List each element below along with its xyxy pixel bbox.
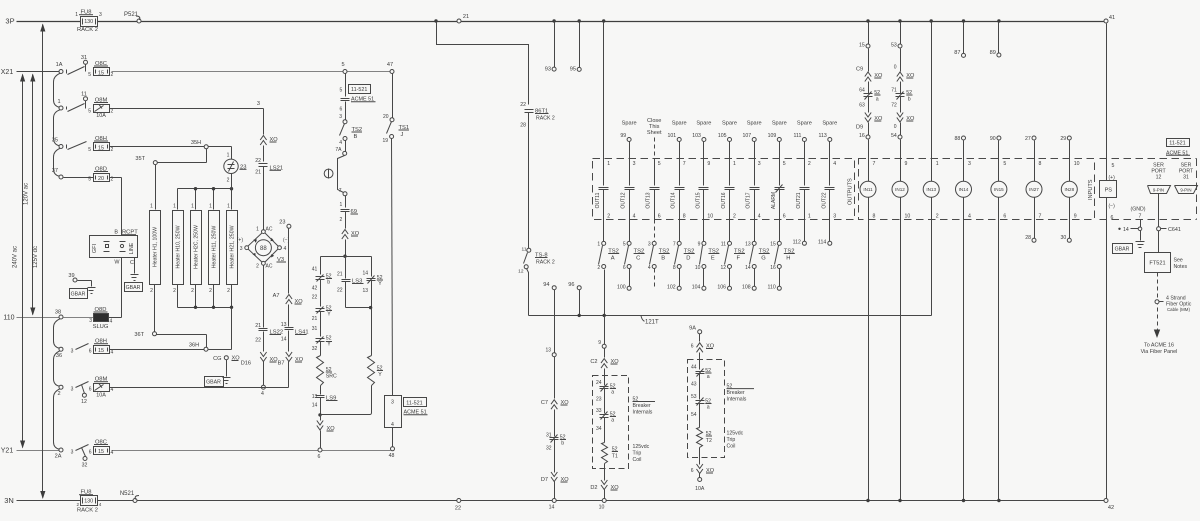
svg-text:54: 54 bbox=[691, 412, 697, 418]
fuse O8H row 36 bbox=[89, 339, 114, 356]
switch row 2A with contact 32 bbox=[71, 445, 89, 469]
svg-text:2: 2 bbox=[111, 109, 114, 115]
svg-text:7: 7 bbox=[1039, 214, 1042, 220]
capacitor 69 bbox=[340, 196, 358, 229]
switch TS2 B (OUT13) bbox=[648, 220, 670, 289]
node 14 on 3N bbox=[549, 499, 557, 511]
svg-text:Via Fiber Panel: Via Fiber Panel bbox=[1141, 349, 1178, 355]
switch row 2 with contact 12 bbox=[71, 382, 89, 406]
svg-text:OUT21: OUT21 bbox=[796, 192, 802, 208]
svg-text:110: 110 bbox=[768, 285, 776, 291]
contact 52/b (41-42) bbox=[312, 267, 332, 307]
svg-text:87: 87 bbox=[954, 50, 960, 56]
arrow XO up C7 bbox=[541, 400, 569, 437]
output contact OUT14 bbox=[671, 161, 686, 220]
voltage line 120V ac (X21 to 110) bbox=[23, 74, 35, 316]
svg-text:11-521: 11-521 bbox=[351, 87, 367, 93]
svg-text:14: 14 bbox=[549, 505, 555, 511]
power supply PS bbox=[1100, 24, 1117, 499]
svg-text:6: 6 bbox=[1003, 214, 1006, 220]
svg-text:5: 5 bbox=[341, 62, 344, 68]
svg-text:22: 22 bbox=[255, 338, 261, 344]
svg-text:32: 32 bbox=[546, 446, 552, 452]
node 37 row4 bbox=[52, 168, 63, 179]
svg-text:100: 100 bbox=[617, 285, 626, 291]
wire 35H to lamp column bbox=[209, 147, 232, 159]
wire 3N bus bbox=[4, 496, 1105, 505]
svg-text:90: 90 bbox=[990, 136, 996, 142]
svg-text:48: 48 bbox=[389, 453, 395, 459]
svg-text:23: 23 bbox=[279, 220, 285, 226]
svg-text:13: 13 bbox=[545, 348, 551, 354]
svg-text:99: 99 bbox=[620, 133, 626, 139]
svg-text:9: 9 bbox=[598, 340, 601, 346]
svg-text:8: 8 bbox=[683, 214, 686, 220]
wire row36 to 36H bbox=[110, 349, 205, 351]
contact 52/a (53-54) bbox=[691, 394, 712, 428]
svg-text:3: 3 bbox=[257, 101, 260, 107]
arrow XO down D2 bbox=[590, 480, 619, 499]
svg-text:32: 32 bbox=[312, 346, 318, 352]
switch TS2 A (OUT11) bbox=[597, 220, 619, 272]
svg-text:2: 2 bbox=[209, 288, 212, 294]
svg-text:14: 14 bbox=[281, 337, 287, 343]
node 13 (C7 column) bbox=[545, 348, 556, 399]
stub 89 bbox=[990, 19, 1001, 57]
svg-text:6: 6 bbox=[1111, 215, 1114, 221]
svg-text:A7: A7 bbox=[273, 293, 280, 299]
svg-text:Breaker: Breaker bbox=[727, 390, 745, 396]
input column IN12 lower bbox=[891, 113, 915, 182]
svg-text:10: 10 bbox=[707, 214, 713, 220]
node 5 on X21 bbox=[341, 62, 347, 74]
svg-text:CG: CG bbox=[213, 356, 221, 362]
svg-text:Spare: Spare bbox=[797, 121, 812, 127]
svg-text:22: 22 bbox=[455, 506, 461, 512]
wire X21 bus bbox=[1, 69, 391, 76]
svg-text:113: 113 bbox=[819, 133, 827, 139]
svg-text:22: 22 bbox=[520, 102, 526, 108]
dashed box serial ports bbox=[1100, 159, 1197, 220]
svg-text:12: 12 bbox=[720, 265, 726, 271]
svg-text:109: 109 bbox=[768, 133, 777, 139]
lamp 23 (neon indicator) bbox=[224, 153, 247, 174]
capacitor LS22 bbox=[255, 323, 283, 352]
svg-text:3: 3 bbox=[71, 449, 74, 455]
ground bar label GBAR (CG) bbox=[205, 377, 224, 387]
dashed box breaker internals T2 bbox=[688, 360, 725, 458]
svg-text:13: 13 bbox=[745, 242, 751, 248]
fuse O8H row3 bbox=[88, 136, 113, 153]
stub 93 from 3P bbox=[545, 19, 556, 72]
wire bridge to LS22 bbox=[263, 266, 265, 328]
svg-text:4: 4 bbox=[633, 214, 636, 220]
svg-text:14: 14 bbox=[362, 271, 368, 277]
svg-text:33: 33 bbox=[596, 408, 602, 414]
svg-text:29: 29 bbox=[1060, 136, 1066, 142]
svg-text:14: 14 bbox=[745, 265, 751, 271]
svg-text:30: 30 bbox=[1061, 235, 1067, 241]
switch TS2 C (OUT12) bbox=[617, 220, 645, 291]
svg-text:5: 5 bbox=[88, 147, 91, 153]
svg-text:b: b bbox=[561, 441, 564, 447]
dashed box OUTPUTS bbox=[593, 159, 855, 220]
arrow XO down (to node 6) bbox=[317, 415, 335, 449]
svg-text:Y: Y bbox=[378, 281, 382, 287]
svg-text:D9: D9 bbox=[856, 125, 863, 131]
svg-text:3: 3 bbox=[391, 400, 394, 406]
svg-text:71: 71 bbox=[891, 88, 897, 94]
svg-text:IN13: IN13 bbox=[926, 187, 936, 192]
wire 121T bbox=[529, 316, 932, 326]
svg-text:a: a bbox=[611, 418, 614, 424]
svg-text:LINE: LINE bbox=[129, 242, 135, 254]
svg-text:95: 95 bbox=[570, 67, 576, 73]
output column OUT22 bottom terminal bbox=[818, 220, 832, 246]
svg-text:20: 20 bbox=[383, 114, 389, 120]
svg-text:Breaker: Breaker bbox=[633, 403, 651, 409]
capacitor LS3 bbox=[337, 257, 371, 308]
svg-text:4: 4 bbox=[111, 450, 114, 456]
svg-text:3: 3 bbox=[633, 161, 636, 167]
svg-text:88: 88 bbox=[955, 136, 961, 142]
contact 52/Y (22-21) bbox=[312, 295, 332, 337]
svg-text:H: H bbox=[786, 256, 790, 262]
node 2 bbox=[57, 385, 63, 397]
node 94 bbox=[543, 282, 556, 353]
input IN14 bbox=[955, 136, 972, 502]
svg-text:9: 9 bbox=[905, 161, 908, 167]
svg-text:2: 2 bbox=[191, 288, 194, 294]
svg-text:7A: 7A bbox=[335, 147, 342, 153]
svg-text:47: 47 bbox=[387, 62, 393, 68]
label to ACME 16 bbox=[1141, 343, 1178, 356]
svg-text:5: 5 bbox=[340, 88, 343, 94]
svg-text:0: 0 bbox=[894, 65, 897, 71]
label 125vdc trip coil (T2) bbox=[727, 431, 744, 450]
fuse FU8 on 3P bbox=[75, 10, 102, 34]
svg-text:89: 89 bbox=[990, 50, 996, 56]
svg-text:35H: 35H bbox=[191, 140, 201, 146]
svg-text:Internals: Internals bbox=[727, 397, 747, 403]
svg-text:63: 63 bbox=[859, 103, 865, 109]
svg-text:8: 8 bbox=[873, 214, 876, 220]
node 21 on 3P with drop to 86T1 column bbox=[434, 14, 528, 105]
output contact OUT17 bbox=[746, 161, 761, 220]
svg-text:Heater H10, 250W: Heater H10, 250W bbox=[175, 225, 181, 268]
svg-text:FT521: FT521 bbox=[1149, 261, 1165, 267]
svg-text:12: 12 bbox=[1156, 175, 1162, 181]
svg-text:Spare: Spare bbox=[622, 121, 637, 127]
svg-text:2: 2 bbox=[607, 214, 610, 220]
input IN13 bbox=[923, 19, 939, 315]
svg-text:38: 38 bbox=[55, 310, 61, 316]
node 23 terminal bbox=[279, 220, 291, 294]
svg-text:6: 6 bbox=[318, 454, 321, 460]
svg-text:a: a bbox=[611, 390, 614, 396]
node 36 bbox=[56, 347, 63, 359]
svg-text:GFI: GFI bbox=[92, 243, 98, 253]
svg-text:1: 1 bbox=[936, 161, 939, 167]
svg-text:ALARM: ALARM bbox=[771, 192, 777, 209]
svg-text:3: 3 bbox=[71, 349, 74, 355]
svg-text:20: 20 bbox=[98, 176, 104, 182]
svg-text:19: 19 bbox=[382, 138, 388, 144]
svg-text:120V ac: 120V ac bbox=[23, 183, 29, 205]
svg-text:9-PIN: 9-PIN bbox=[1180, 188, 1191, 193]
input IN27 bbox=[1025, 136, 1042, 242]
arrow XO up (column 345) bbox=[342, 230, 360, 257]
serial port 31 bbox=[1175, 163, 1198, 194]
arrow XO down D16 bbox=[241, 352, 278, 386]
node 35T and wire to heater H1 bbox=[135, 149, 206, 210]
switch TS2 B (345) bbox=[339, 114, 362, 152]
svg-text:Spare: Spare bbox=[772, 121, 787, 127]
svg-text:T2: T2 bbox=[706, 438, 712, 444]
svg-text:64: 64 bbox=[859, 88, 865, 94]
svg-text:4: 4 bbox=[968, 214, 971, 220]
ground bar label GBAR (RCPT) bbox=[125, 283, 143, 292]
arrow XO up (above LS21) bbox=[260, 136, 278, 162]
svg-text:IN14: IN14 bbox=[959, 187, 969, 192]
svg-text:IN11: IN11 bbox=[863, 187, 873, 192]
stub 87 bbox=[954, 19, 965, 57]
svg-text:a: a bbox=[707, 374, 710, 380]
switch TS2 H (ALARM) bbox=[768, 220, 795, 291]
svg-text:1: 1 bbox=[227, 204, 230, 210]
svg-text:To ACME 16: To ACME 16 bbox=[1144, 343, 1174, 349]
svg-text:a: a bbox=[876, 97, 879, 103]
svg-text:OUT16: OUT16 bbox=[721, 192, 727, 208]
fiber transceiver FT521 bbox=[1145, 253, 1188, 273]
output column OUT15 top bbox=[692, 121, 711, 186]
junction dot column 345 bbox=[343, 255, 346, 258]
wire OUT11 column to 121T bbox=[603, 270, 606, 345]
svg-text:Heater H2C, 250W: Heater H2C, 250W bbox=[193, 225, 199, 269]
svg-text:15: 15 bbox=[770, 242, 776, 248]
wire 36T to 36H bbox=[157, 335, 207, 348]
heater H1 (Heater H1, 100W) bbox=[150, 204, 161, 295]
svg-text:240V ac: 240V ac bbox=[13, 246, 19, 268]
svg-text:B: B bbox=[661, 256, 665, 262]
svg-text:41: 41 bbox=[312, 267, 318, 273]
svg-text:54: 54 bbox=[891, 133, 897, 139]
svg-text:Y: Y bbox=[378, 372, 382, 378]
output contact OUT16 bbox=[721, 161, 736, 220]
fuse O8D row4 bbox=[64, 167, 114, 183]
svg-text:C9: C9 bbox=[856, 67, 863, 73]
svg-text:105: 105 bbox=[718, 133, 727, 139]
svg-text:(−): (−) bbox=[1109, 204, 1116, 210]
svg-text:IN28: IN28 bbox=[1064, 187, 1074, 192]
input IN11 bbox=[860, 161, 876, 502]
svg-text:3N: 3N bbox=[4, 496, 14, 505]
svg-text:11: 11 bbox=[522, 247, 527, 253]
wire 110 bus bbox=[3, 315, 121, 322]
svg-text:9A: 9A bbox=[689, 326, 696, 332]
svg-text:1: 1 bbox=[256, 227, 259, 233]
svg-text:b: b bbox=[327, 280, 330, 286]
svg-text:4: 4 bbox=[339, 140, 342, 146]
wire heater top bus bbox=[178, 187, 234, 210]
svg-text:OUT17: OUT17 bbox=[746, 192, 752, 208]
output contact OUT12 bbox=[621, 161, 636, 220]
wire heater H1 bottom to 36T bbox=[154, 285, 156, 332]
wire branch to 320 and 371 bbox=[321, 257, 372, 277]
svg-text:D16: D16 bbox=[241, 361, 251, 367]
svg-text:36H: 36H bbox=[189, 343, 199, 349]
label 52 breaker internals (T2) bbox=[727, 384, 755, 403]
svg-text:Cable (MM): Cable (MM) bbox=[1167, 307, 1190, 312]
svg-text:11: 11 bbox=[721, 242, 726, 248]
bridge rectifier V3 (88) bbox=[237, 227, 290, 270]
svg-text:53: 53 bbox=[691, 394, 697, 400]
output column OUT14 top bbox=[668, 121, 687, 186]
fuse O8C row1 bbox=[88, 61, 113, 78]
svg-text:2: 2 bbox=[597, 265, 600, 271]
svg-text:E: E bbox=[711, 256, 715, 262]
svg-text:15: 15 bbox=[98, 146, 104, 152]
svg-text:21: 21 bbox=[255, 170, 261, 176]
switch TS2 F (OUT16) bbox=[717, 220, 745, 291]
svg-text:130: 130 bbox=[84, 499, 93, 505]
svg-text:Trip: Trip bbox=[633, 451, 642, 457]
svg-text:10: 10 bbox=[905, 214, 911, 220]
svg-text:2: 2 bbox=[227, 178, 230, 184]
svg-text:36: 36 bbox=[56, 353, 62, 359]
svg-text:9-PIN: 9-PIN bbox=[1153, 188, 1164, 193]
svg-text:1: 1 bbox=[191, 204, 194, 210]
svg-text:103: 103 bbox=[692, 133, 701, 139]
node 10 on 3N bbox=[599, 499, 607, 511]
input column IN11 upper bbox=[856, 19, 883, 93]
svg-text:IN27: IN27 bbox=[1029, 187, 1039, 192]
svg-text:9: 9 bbox=[1074, 214, 1077, 220]
voltage line 240V ac (X21 to Y21) bbox=[13, 74, 26, 449]
svg-text:31: 31 bbox=[1183, 175, 1189, 181]
contact 52/Y (31-32) bbox=[312, 326, 332, 356]
svg-text:14: 14 bbox=[312, 403, 318, 409]
svg-text:5: 5 bbox=[88, 177, 91, 183]
svg-text:6: 6 bbox=[89, 387, 92, 393]
receptacle RCPT GFI bbox=[90, 230, 139, 266]
svg-text:4: 4 bbox=[758, 214, 761, 220]
svg-text:93: 93 bbox=[545, 67, 551, 73]
svg-text:Y21: Y21 bbox=[1, 448, 14, 455]
svg-text:4: 4 bbox=[261, 391, 264, 397]
svg-text:5: 5 bbox=[1112, 163, 1115, 169]
capacitor LS9 bbox=[312, 394, 338, 415]
svg-text:Coil: Coil bbox=[633, 457, 642, 463]
svg-text:96: 96 bbox=[568, 282, 574, 288]
switch contact 11 row2 bbox=[67, 92, 88, 112]
svg-text:28: 28 bbox=[520, 123, 526, 129]
contact 52/a (44-43) bbox=[691, 365, 712, 400]
node 36T bbox=[134, 332, 156, 338]
svg-text:4: 4 bbox=[111, 350, 114, 356]
label 125vdc trip coil (T1) bbox=[633, 444, 650, 463]
breaker O8M row 2 bbox=[89, 377, 114, 399]
svg-text:7: 7 bbox=[873, 161, 876, 167]
svg-text:104: 104 bbox=[692, 285, 701, 291]
svg-text:1: 1 bbox=[57, 99, 60, 105]
svg-text:2: 2 bbox=[76, 502, 79, 507]
output column OUT11 top bbox=[602, 19, 605, 185]
svg-text:OUT15: OUT15 bbox=[695, 192, 701, 208]
svg-text:8: 8 bbox=[1039, 161, 1042, 167]
svg-text:121T: 121T bbox=[645, 320, 659, 326]
svg-text:31: 31 bbox=[81, 55, 87, 61]
svg-text:Spare: Spare bbox=[722, 121, 737, 127]
input IN28 bbox=[1060, 136, 1079, 242]
svg-text:2: 2 bbox=[57, 391, 60, 397]
svg-text:6: 6 bbox=[340, 107, 343, 113]
arrow XO up C2 bbox=[590, 359, 619, 386]
svg-text:OUT12: OUT12 bbox=[621, 192, 627, 208]
wire heater bottom bus bbox=[178, 285, 234, 309]
svg-text:3: 3 bbox=[71, 387, 74, 393]
dashed box breaker internals T1 bbox=[593, 376, 629, 469]
svg-text:101: 101 bbox=[668, 133, 677, 139]
svg-text:1: 1 bbox=[75, 12, 78, 18]
svg-text:Spare: Spare bbox=[696, 121, 711, 127]
svg-text:OUT13: OUT13 bbox=[646, 192, 652, 208]
svg-text:2: 2 bbox=[340, 217, 343, 223]
wire RCPT W to 110 bbox=[121, 258, 123, 318]
wire SER12 to FT521 with node C641 bbox=[1157, 194, 1181, 253]
node 9 (C2 column) bbox=[598, 340, 606, 358]
svg-text:N521: N521 bbox=[120, 491, 135, 497]
svg-text:(+): (+) bbox=[237, 238, 244, 244]
svg-text:G: G bbox=[761, 256, 766, 262]
node 1A on X21 bbox=[56, 62, 63, 74]
svg-text:Heater H21, 250W: Heater H21, 250W bbox=[229, 225, 235, 268]
svg-text:4: 4 bbox=[284, 246, 287, 252]
svg-text:3: 3 bbox=[240, 246, 243, 252]
svg-text:Internals: Internals bbox=[633, 410, 653, 416]
svg-text:D2: D2 bbox=[590, 485, 597, 491]
svg-text:B: B bbox=[114, 230, 118, 236]
svg-text:10: 10 bbox=[695, 265, 701, 271]
svg-text:94: 94 bbox=[543, 282, 549, 288]
svg-text:GBAR: GBAR bbox=[206, 380, 221, 386]
svg-text:15: 15 bbox=[98, 348, 104, 354]
switch TS2 G (OUT17) bbox=[742, 220, 770, 291]
capacitor LS21 bbox=[255, 158, 283, 230]
svg-text:4: 4 bbox=[99, 502, 102, 507]
svg-text:2: 2 bbox=[227, 288, 230, 294]
svg-text:31: 31 bbox=[312, 326, 318, 332]
svg-text:5: 5 bbox=[88, 109, 91, 115]
svg-text:36T: 36T bbox=[134, 332, 144, 338]
dashed box INPUTS bbox=[859, 159, 1095, 220]
svg-text:21: 21 bbox=[312, 316, 318, 322]
output contact OUT13 bbox=[646, 161, 661, 220]
svg-text:7: 7 bbox=[1139, 214, 1142, 220]
svg-text:SRC: SRC bbox=[326, 374, 337, 380]
switch TS-8 RACK 2 bbox=[518, 247, 555, 316]
label 11-521 ACME 51 (right) bbox=[1166, 139, 1190, 157]
svg-text:2: 2 bbox=[256, 264, 259, 270]
svg-text:C641: C641 bbox=[1168, 227, 1181, 233]
wire 36H to heater bottom bus bbox=[209, 308, 232, 350]
capacitor 86T1 RACK 2 bbox=[520, 102, 555, 249]
ground net GND 7 bbox=[1118, 207, 1145, 241]
svg-text:Heater H1, 100W: Heater H1, 100W bbox=[152, 227, 158, 267]
output column OUT12 top bbox=[620, 121, 636, 186]
svg-text:88: 88 bbox=[260, 246, 267, 252]
svg-text:3: 3 bbox=[968, 161, 971, 167]
